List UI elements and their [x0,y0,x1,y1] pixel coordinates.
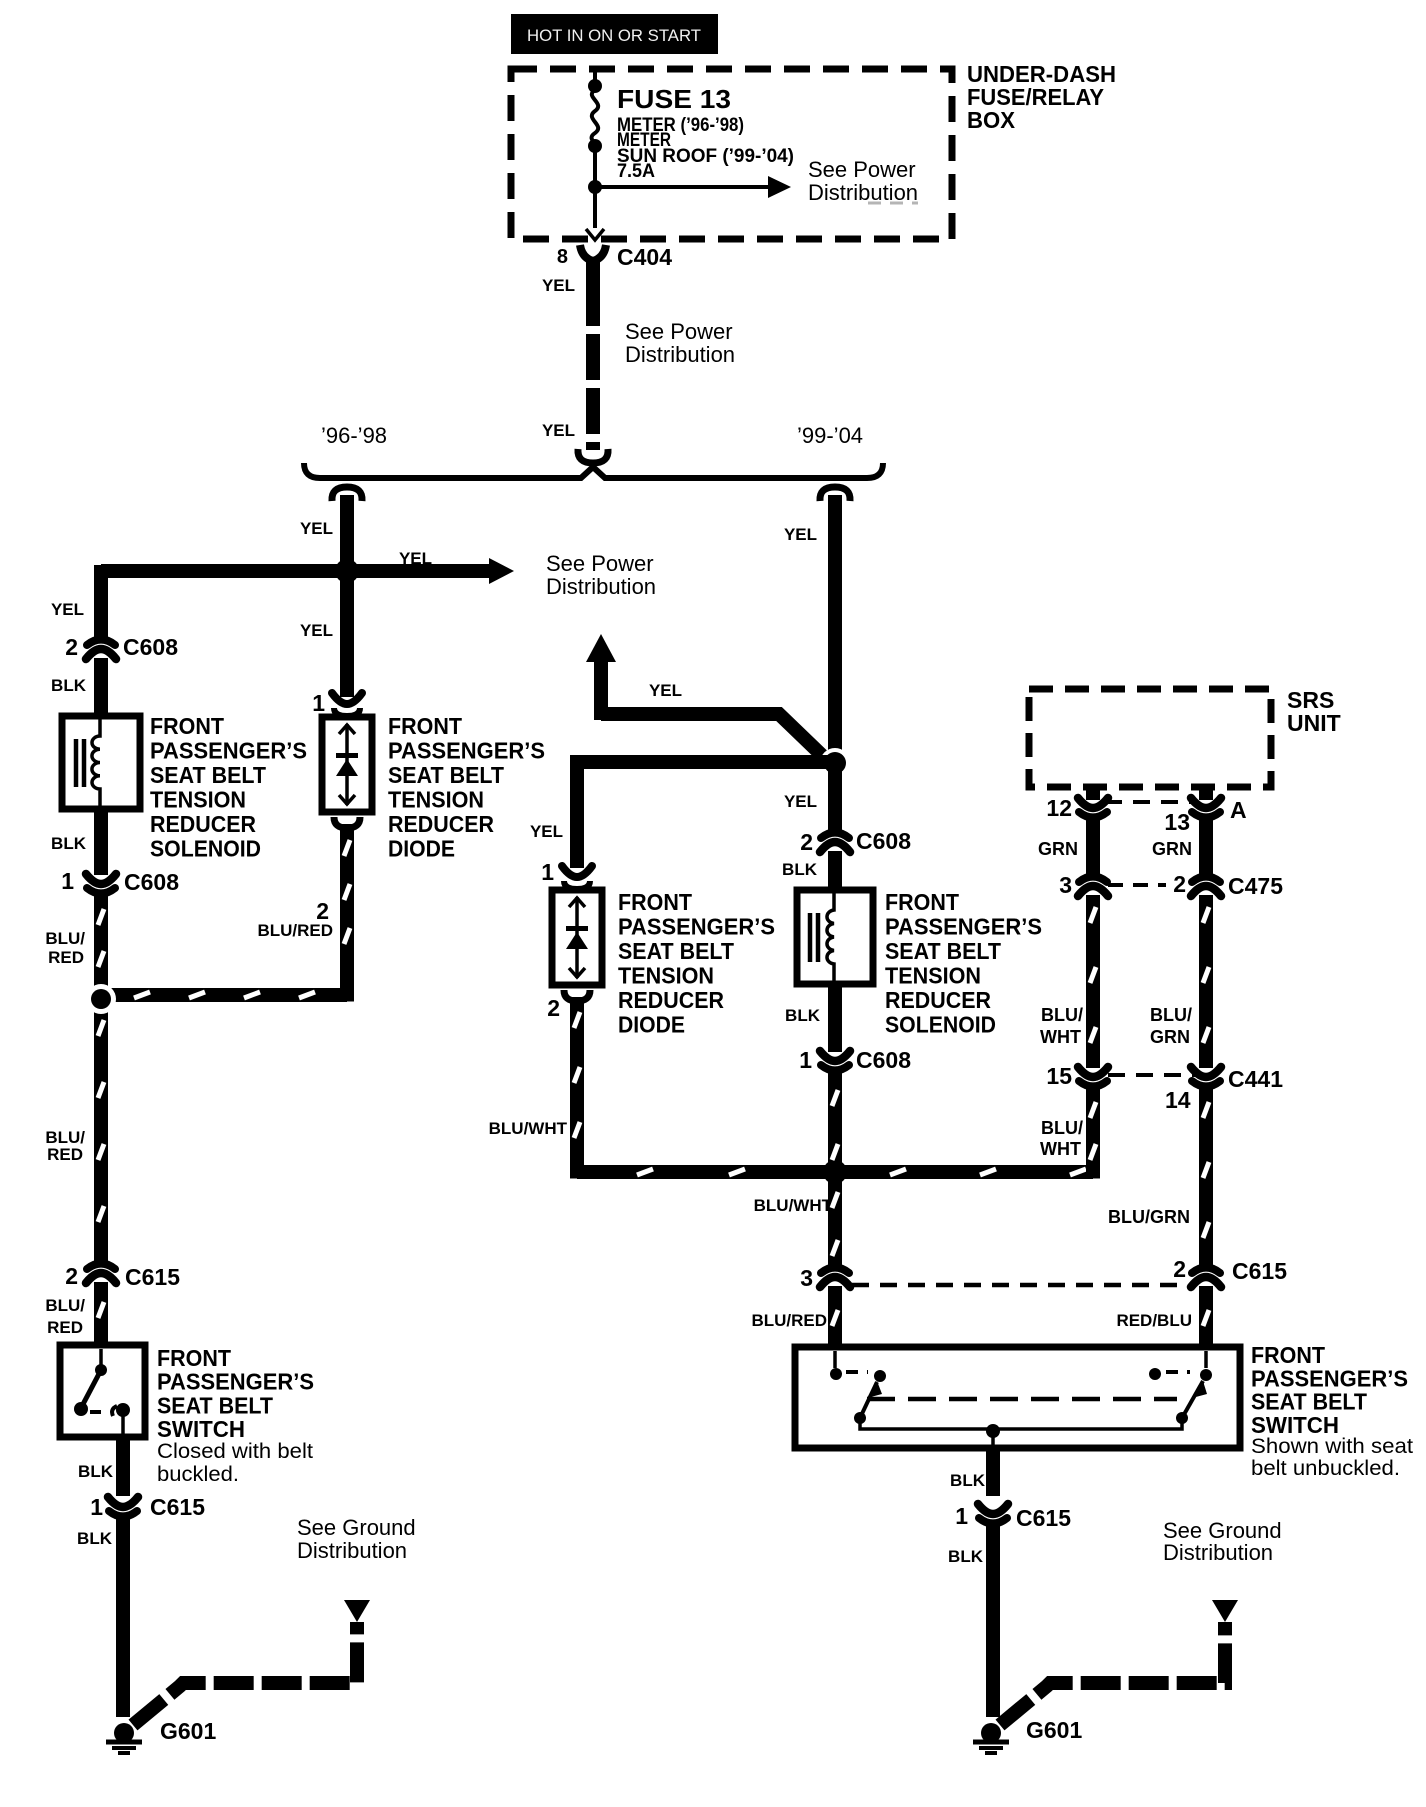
svg-text:TENSION: TENSION [150,787,246,813]
svg-text:BLK: BLK [77,1529,113,1548]
svg-text:1: 1 [541,859,554,885]
svg-text:FRONT: FRONT [1251,1342,1325,1368]
svg-text:PASSENGER’S: PASSENGER’S [157,1369,314,1395]
svg-text:BLU/: BLU/ [45,1296,85,1315]
svg-text:SOLENOID: SOLENOID [150,836,261,862]
svg-text:BLU/: BLU/ [1041,1005,1083,1025]
svg-text:YEL: YEL [300,519,333,538]
svg-text:1: 1 [61,868,74,894]
svg-text:RED/BLU: RED/BLU [1116,1311,1192,1330]
svg-text:BLU/GRN: BLU/GRN [1108,1207,1190,1227]
svg-text:BLK: BLK [782,860,818,879]
svg-text:C441: C441 [1228,1066,1283,1092]
svg-text:1: 1 [90,1494,103,1520]
svg-text:belt unbuckled.: belt unbuckled. [1251,1457,1400,1480]
svg-text:UNIT: UNIT [1287,710,1341,736]
svg-text:YEL: YEL [399,549,432,568]
svg-text:HOT IN ON OR START: HOT IN ON OR START [527,26,701,45]
svg-text:DIODE: DIODE [388,836,455,862]
svg-text:BLK: BLK [78,1462,114,1481]
svg-text:FRONT: FRONT [618,889,692,915]
svg-text:BOX: BOX [967,107,1016,133]
svg-text:3: 3 [1059,872,1072,898]
svg-text:’96-’98: ’96-’98 [321,423,387,448]
svg-text:BLK: BLK [948,1547,984,1566]
svg-text:YEL: YEL [300,621,333,640]
svg-text:YEL: YEL [542,421,575,440]
svg-text:SEAT BELT: SEAT BELT [388,762,504,788]
svg-text:DIODE: DIODE [618,1012,685,1038]
svg-text:Closed with belt: Closed with belt [157,1440,313,1463]
svg-text:1: 1 [799,1047,812,1073]
svg-text:GRN: GRN [1152,839,1192,859]
svg-text:YEL: YEL [784,525,817,544]
svg-text:14: 14 [1165,1087,1191,1113]
svg-text:C615: C615 [150,1494,205,1520]
svg-text:C615: C615 [1016,1505,1071,1531]
svg-text:SEAT BELT: SEAT BELT [1251,1389,1367,1415]
svg-text:REDUCER: REDUCER [388,811,494,837]
svg-text:RED: RED [48,948,84,967]
svg-text:BLK: BLK [51,834,87,853]
svg-text:TENSION: TENSION [885,963,981,989]
svg-text:C608: C608 [123,634,178,660]
svg-text:C608: C608 [124,869,179,895]
svg-text:1: 1 [312,690,325,716]
svg-text:SEAT BELT: SEAT BELT [885,938,1001,964]
svg-text:FRONT: FRONT [388,713,462,739]
svg-text:C615: C615 [125,1264,180,1290]
svg-text:BLU/RED: BLU/RED [751,1311,827,1330]
svg-text:G601: G601 [160,1718,216,1744]
svg-text:PASSENGER’S: PASSENGER’S [388,738,545,764]
svg-text:YEL: YEL [649,681,682,700]
svg-text:YEL: YEL [530,822,563,841]
svg-text:RED: RED [47,1318,83,1337]
svg-text:BLU/: BLU/ [1150,1005,1192,1025]
svg-text:YEL: YEL [784,792,817,811]
svg-text:SEAT BELT: SEAT BELT [618,938,734,964]
svg-text:See Ground: See Ground [297,1515,416,1540]
svg-text:BLK: BLK [785,1006,821,1025]
svg-text:WHT: WHT [1040,1139,1081,1159]
svg-text:REDUCER: REDUCER [885,987,991,1013]
svg-text:BLU/RED: BLU/RED [257,921,333,940]
svg-text:’99-’04: ’99-’04 [797,423,863,448]
svg-text:C404: C404 [617,244,672,270]
svg-text:2: 2 [1173,871,1186,897]
svg-text:C608: C608 [856,828,911,854]
svg-text:2: 2 [65,634,78,660]
svg-text:Distribution: Distribution [546,574,656,599]
svg-text:2: 2 [800,829,813,855]
svg-text:GRN: GRN [1038,839,1078,859]
svg-text:BLU/WHT: BLU/WHT [754,1196,833,1215]
svg-text:G601: G601 [1026,1717,1082,1743]
svg-text:BLU/: BLU/ [1041,1118,1083,1138]
svg-text:PASSENGER’S: PASSENGER’S [150,738,307,764]
svg-text:BLU/WHT: BLU/WHT [489,1119,568,1138]
svg-text:C475: C475 [1228,873,1283,899]
svg-text:FRONT: FRONT [150,713,224,739]
svg-text:12: 12 [1046,795,1072,821]
svg-text:13: 13 [1164,809,1190,835]
svg-text:A: A [1230,797,1247,823]
svg-text:7.5A: 7.5A [617,161,655,182]
svg-text:FRONT: FRONT [885,889,959,915]
svg-text:GRN: GRN [1150,1027,1190,1047]
svg-text:See Power: See Power [808,157,916,182]
svg-text:Distribution: Distribution [1163,1540,1273,1565]
svg-text:REDUCER: REDUCER [150,811,256,837]
svg-text:PASSENGER’S: PASSENGER’S [885,914,1042,940]
svg-text:YEL: YEL [51,600,84,619]
svg-text:REDUCER: REDUCER [618,987,724,1013]
svg-text:See Power: See Power [546,551,654,576]
svg-text:BLU/: BLU/ [45,929,85,948]
svg-text:PASSENGER’S: PASSENGER’S [618,914,775,940]
svg-text:SEAT BELT: SEAT BELT [157,1392,273,1418]
svg-text:2: 2 [65,1263,78,1289]
svg-text:8: 8 [557,246,568,268]
svg-text:C615: C615 [1232,1258,1287,1284]
svg-text:Distribution: Distribution [625,342,735,367]
svg-text:SEAT BELT: SEAT BELT [150,762,266,788]
svg-text:BLK: BLK [51,676,87,695]
svg-text:RED: RED [47,1145,83,1164]
svg-text:Distribution: Distribution [808,180,918,205]
svg-text:Shown with seat: Shown with seat [1251,1435,1413,1458]
svg-text:1: 1 [955,1503,968,1529]
svg-text:TENSION: TENSION [388,787,484,813]
svg-text:See Power: See Power [625,319,733,344]
svg-text:SWITCH: SWITCH [1251,1412,1339,1438]
svg-text:PASSENGER’S: PASSENGER’S [1251,1365,1408,1391]
svg-text:15: 15 [1046,1063,1072,1089]
svg-text:FUSE 13: FUSE 13 [617,84,731,114]
svg-text:buckled.: buckled. [157,1463,239,1486]
svg-text:Distribution: Distribution [297,1538,407,1563]
svg-text:2: 2 [547,995,560,1021]
svg-text:C608: C608 [856,1047,911,1073]
svg-text:SOLENOID: SOLENOID [885,1012,996,1038]
svg-text:YEL: YEL [542,276,575,295]
svg-text:3: 3 [800,1265,813,1291]
svg-text:SWITCH: SWITCH [157,1416,245,1442]
svg-text:BLK: BLK [950,1471,986,1490]
svg-text:FRONT: FRONT [157,1345,231,1371]
svg-text:WHT: WHT [1040,1027,1081,1047]
svg-text:2: 2 [1173,1256,1186,1282]
svg-text:TENSION: TENSION [618,963,714,989]
